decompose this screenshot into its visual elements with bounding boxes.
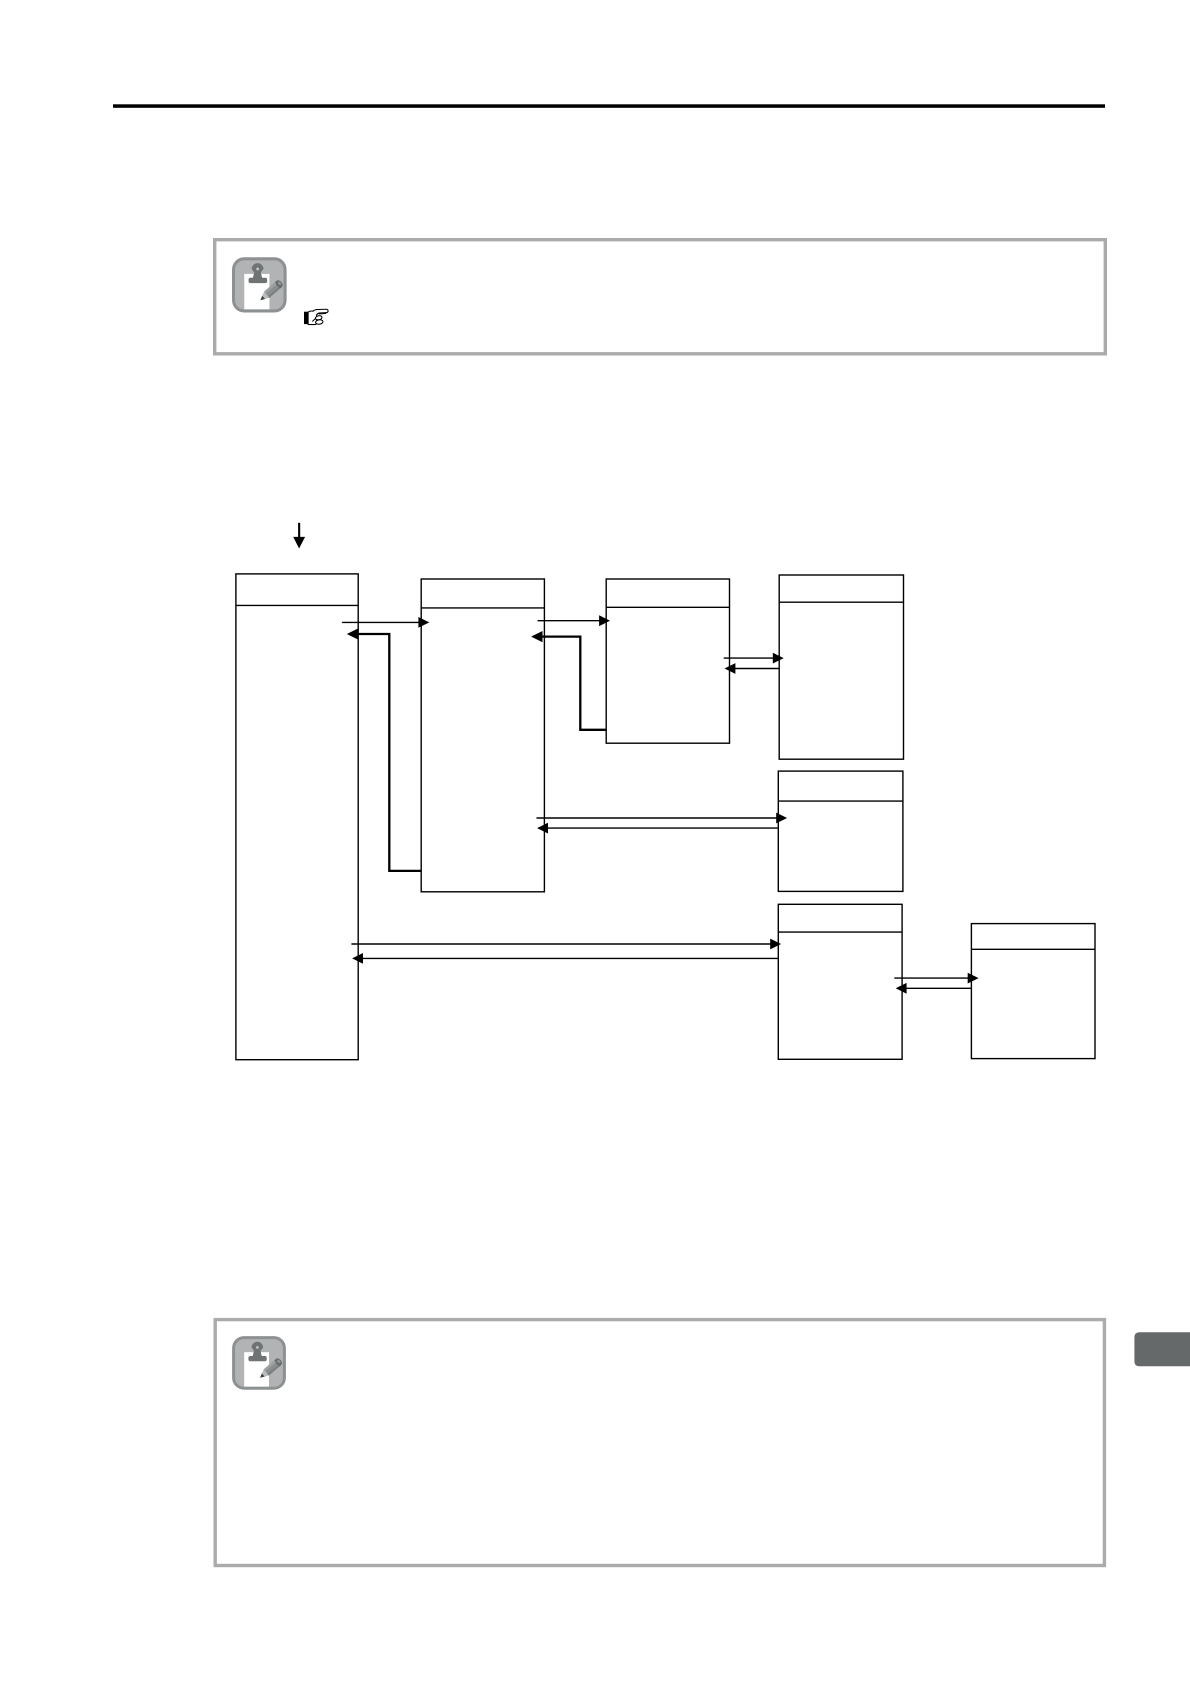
note box 2 border <box>215 1320 1104 1566</box>
arrow C to D <box>724 653 784 664</box>
box E <box>778 771 903 891</box>
return arrow F to A <box>352 953 778 964</box>
arrow A to B <box>342 617 429 628</box>
top horizontal rule <box>113 104 1105 108</box>
return arrow D to C <box>725 663 780 674</box>
box F <box>778 904 902 1059</box>
note icon 2 (clipboard) <box>234 1338 285 1389</box>
box D <box>779 575 903 759</box>
return arrow G to F <box>896 983 972 994</box>
note icon 1 (clipboard) <box>234 259 286 311</box>
return arrow E to B <box>537 823 778 834</box>
thick return arrow C to B <box>531 631 606 730</box>
arrow A to F <box>351 939 781 950</box>
pointing hand reference icon <box>304 309 328 324</box>
arrow B to E <box>537 813 788 824</box>
diagram entry down-arrow <box>293 523 305 549</box>
box A <box>236 574 358 1060</box>
box B <box>421 579 544 892</box>
thick return arrow B to A <box>347 628 421 871</box>
box C <box>606 579 729 743</box>
note box 1 border <box>215 240 1106 354</box>
box G <box>971 924 1095 1059</box>
page margin tab <box>1134 1332 1190 1366</box>
arrow F to G <box>894 973 978 984</box>
arrow B to C <box>538 615 610 626</box>
